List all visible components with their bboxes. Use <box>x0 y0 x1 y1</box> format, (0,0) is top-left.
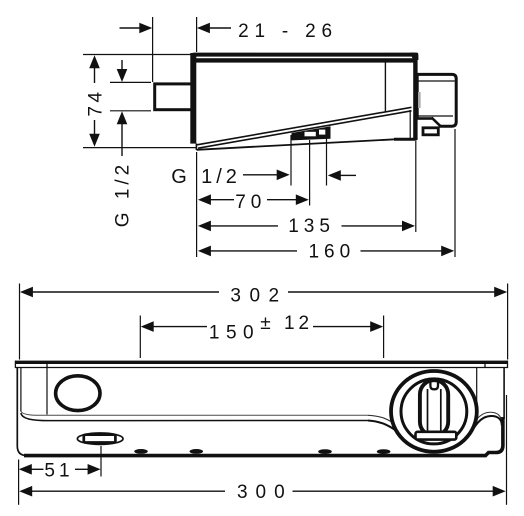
shelf plate top <box>15 361 508 364</box>
plate right end <box>507 361 509 368</box>
wall connector block <box>417 74 456 126</box>
drain dot 3 <box>318 449 332 454</box>
dim 21-26 extension line right <box>196 17 198 52</box>
dim 150 ext lines <box>139 316 141 359</box>
apron lower line <box>21 413 368 421</box>
svg-text:160: 160 <box>308 241 355 262</box>
svg-text:21 - 26: 21 - 26 <box>238 21 338 42</box>
handle top notch <box>430 382 438 390</box>
left knob <box>56 376 100 411</box>
dim 135 <box>198 221 211 232</box>
ext line body right edge down <box>415 141 417 232</box>
connector bottom tab <box>423 128 438 135</box>
dim 150 +-12 <box>141 321 154 332</box>
G 1/2 pipe dim extension lines <box>110 81 151 83</box>
ext line outlet right <box>326 133 328 186</box>
svg-text:G 1/2: G 1/2 <box>113 161 134 227</box>
dim 160 <box>198 246 211 257</box>
dim 21-26 extension line left <box>152 17 154 82</box>
dim 21-26 left arrow <box>120 27 141 29</box>
hose outlet oval <box>77 433 123 444</box>
body left inner edge <box>20 368 22 412</box>
dim 70 <box>198 194 211 205</box>
connector inner line top <box>418 80 455 82</box>
body right edge bar <box>413 57 417 141</box>
G 1/2 bottom arrow right <box>243 174 277 176</box>
handle base <box>416 432 457 440</box>
drain dot 1 <box>134 449 148 454</box>
svg-text:± 12: ± 12 <box>260 313 313 334</box>
wave around wheel thin <box>368 412 501 446</box>
wedge diagonal lower <box>198 111 412 148</box>
wheel handle pill <box>420 380 448 436</box>
body plate bottom band <box>192 58 415 62</box>
drain dot 4 <box>377 449 391 454</box>
plate tick left <box>46 361 48 368</box>
dim 302 ext lines <box>19 284 21 360</box>
wave around wheel thick <box>368 416 502 451</box>
ext line from body left edge down <box>196 152 198 257</box>
body left bottom tip <box>195 144 197 151</box>
apron upper line <box>21 412 368 416</box>
svg-text:70: 70 <box>235 192 266 213</box>
shelf plate bottom line <box>15 367 508 369</box>
G 1/2 bottom arrow left <box>328 170 341 181</box>
svg-text:150: 150 <box>209 322 260 343</box>
dim 74 line and arrows <box>94 67 96 83</box>
drain dot 2 <box>190 449 204 454</box>
dim 51 ext line <box>100 446 102 477</box>
svg-text:G: G <box>171 166 187 188</box>
connector inner line bottom <box>418 115 453 117</box>
wedge diagonal upper <box>197 107 412 145</box>
body inner seam <box>384 60 386 112</box>
body bottom edge <box>24 417 503 456</box>
body inner right vertical <box>409 110 411 139</box>
dim 300 <box>19 486 32 497</box>
plate tick right <box>484 361 486 368</box>
ext line connector right down <box>454 129 456 257</box>
plate left end <box>14 361 16 368</box>
connector shadow shading <box>418 92 421 108</box>
dim 300 ext lines <box>18 460 20 505</box>
right wheel outer ring <box>391 371 477 452</box>
body bottom contour <box>197 139 396 150</box>
body plate right corner join <box>410 53 418 60</box>
dim 74 extension line bottom <box>83 147 196 149</box>
svg-text:74: 74 <box>85 88 106 116</box>
dim 74 extension line top <box>83 54 191 56</box>
body left edge bar <box>190 53 196 144</box>
body plate top band <box>192 53 418 57</box>
handle inner lines <box>427 389 429 431</box>
right seam <box>476 368 478 407</box>
ext line outlet left <box>290 135 292 186</box>
G 1/2 pipe dim arrows <box>121 60 123 70</box>
svg-text:300: 300 <box>237 482 293 503</box>
dim 51 <box>19 464 32 475</box>
body right edge <box>503 368 505 419</box>
right wheel inner ring <box>401 379 467 444</box>
svg-text:302: 302 <box>230 285 287 306</box>
connector bottom chamfer <box>418 117 433 120</box>
supply pipe <box>155 84 193 110</box>
dim 302 <box>20 287 33 298</box>
left seam <box>46 368 48 415</box>
underside outlet tab <box>292 126 331 140</box>
svg-text:51: 51 <box>44 460 73 481</box>
body left outer edge <box>17 368 27 456</box>
ext line outlet center <box>309 140 311 206</box>
dim 21-26 right arrow <box>209 27 231 29</box>
svg-text:135: 135 <box>288 216 335 237</box>
svg-text:1/2: 1/2 <box>201 166 241 188</box>
